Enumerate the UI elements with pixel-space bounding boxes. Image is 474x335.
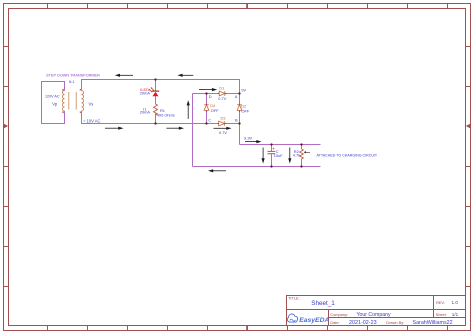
svg-text:Date:: Date: bbox=[330, 320, 339, 325]
junction node A bbox=[238, 92, 240, 94]
svg-text:9.3V: 9.3V bbox=[244, 135, 253, 140]
svg-text:400 Ohms: 400 Ohms bbox=[157, 113, 175, 118]
svg-text:0.7V: 0.7V bbox=[219, 130, 227, 135]
svg-text:Sheet_1: Sheet_1 bbox=[311, 300, 335, 307]
svg-text:D: D bbox=[209, 94, 212, 99]
wire bridge top bbox=[193, 93, 240, 95]
wire secondary top rail bbox=[82, 80, 240, 94]
svg-text:9V: 9V bbox=[241, 87, 246, 92]
junction at LED branch top bbox=[154, 78, 156, 80]
svg-text:D3: D3 bbox=[221, 116, 226, 121]
svg-text:TITLE:: TITLE: bbox=[288, 295, 300, 300]
primary winding bbox=[62, 91, 64, 111]
svg-text:Vp: Vp bbox=[52, 101, 58, 106]
LED bbox=[140, 87, 159, 96]
wire capacitor branch bbox=[271, 145, 273, 167]
svg-text:6:1: 6:1 bbox=[69, 79, 75, 84]
wire bridge right branch bbox=[239, 94, 241, 145]
svg-text:REV:: REV: bbox=[436, 300, 445, 305]
secondary winding bbox=[82, 91, 84, 111]
svg-text:STEP DOWN TRANSFORMER: STEP DOWN TRANSFORMER bbox=[46, 73, 100, 77]
wire LED branch bbox=[155, 80, 157, 124]
arrow bridge top right bbox=[199, 89, 214, 91]
junction at LED branch bottom bbox=[154, 122, 156, 124]
svg-text:20mA: 20mA bbox=[140, 91, 151, 96]
wire secondary bottom rail bbox=[82, 111, 240, 124]
arrow top rail left 1 bbox=[118, 74, 133, 76]
arrow top rail left 2 bbox=[181, 74, 194, 76]
svg-text:B: B bbox=[235, 118, 238, 123]
svg-text:ATTACHED TO CHARGING CIRCUIT: ATTACHED TO CHARGING CIRCUIT bbox=[317, 154, 378, 158]
coil end marks bbox=[62, 89, 81, 113]
svg-text:Company:: Company: bbox=[330, 312, 348, 317]
svg-text:A: A bbox=[235, 94, 238, 99]
EasyEDA logo bbox=[287, 314, 329, 324]
arrow output 9.3V bbox=[245, 141, 258, 143]
svg-text:~ 10V AC: ~ 10V AC bbox=[83, 119, 100, 124]
svg-text:OFF: OFF bbox=[242, 108, 250, 113]
junction node B bbox=[238, 122, 240, 124]
svg-text:120V AC: 120V AC bbox=[45, 95, 60, 99]
svg-text:10uF: 10uF bbox=[274, 153, 283, 158]
diode pin marks bbox=[206, 93, 240, 124]
resistor R1 bbox=[140, 104, 175, 118]
svg-text:D1: D1 bbox=[219, 85, 224, 90]
svg-text:2021-02-23: 2021-02-23 bbox=[349, 320, 377, 326]
svg-text:0.7V: 0.7V bbox=[218, 96, 226, 101]
svg-text:OFF: OFF bbox=[211, 108, 219, 113]
junction node C bbox=[205, 122, 207, 124]
svg-text:Sheet:: Sheet: bbox=[436, 312, 447, 317]
wire output top 9.3V bbox=[240, 144, 321, 146]
transformer core bbox=[69, 92, 77, 110]
title block bbox=[287, 296, 466, 326]
junction capacitor top bbox=[270, 143, 272, 145]
svg-text:Drawn By:: Drawn By: bbox=[386, 320, 404, 325]
svg-text:Your Company: Your Company bbox=[357, 312, 392, 318]
arrow below D3 bbox=[214, 127, 229, 129]
arrow bottom rail 2 bbox=[166, 127, 180, 129]
diode D3 bbox=[219, 116, 228, 136]
svg-text:EasyEDA: EasyEDA bbox=[299, 317, 329, 324]
junction load bottom bbox=[300, 165, 302, 167]
diode D4 bbox=[204, 103, 219, 113]
svg-text:C: C bbox=[208, 118, 211, 123]
wire primary loop bbox=[42, 82, 65, 124]
svg-text:1/1: 1/1 bbox=[452, 312, 459, 317]
arrow down at capacitor bbox=[262, 148, 264, 161]
arrow up left of bridge bbox=[187, 104, 189, 119]
arrow output return left bbox=[211, 170, 226, 172]
junction load top bbox=[300, 143, 302, 145]
capacitor C bbox=[268, 148, 284, 158]
step down transformer T1 bbox=[42, 73, 101, 123]
wire bridge left branch bbox=[206, 94, 208, 124]
junction capacitor bottom bbox=[270, 165, 272, 167]
diode D1 bbox=[218, 85, 226, 101]
resistor R2 (load) bbox=[293, 149, 310, 159]
svg-text:SarahWilliams22: SarahWilliams22 bbox=[413, 320, 453, 326]
svg-text:20mA: 20mA bbox=[140, 110, 151, 115]
wire load branch bbox=[301, 145, 303, 167]
arrow bottom rail 1 bbox=[105, 127, 120, 129]
current arrows bbox=[105, 74, 291, 173]
svg-text:Vs: Vs bbox=[89, 101, 94, 106]
diode D2 bbox=[237, 103, 250, 113]
svg-text:4.7k: 4.7k bbox=[293, 153, 300, 158]
wire output bottom bbox=[193, 166, 321, 168]
wire bridge return vertical bbox=[192, 94, 194, 167]
junction node D bbox=[205, 92, 207, 94]
arrow down at load bbox=[289, 148, 291, 161]
svg-text:1.0: 1.0 bbox=[452, 300, 459, 305]
